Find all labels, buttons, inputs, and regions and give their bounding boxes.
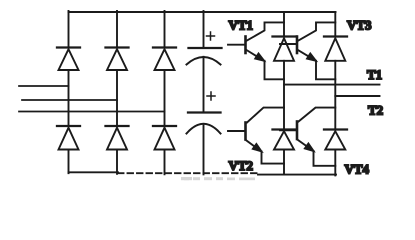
wire VT2 collector jog (247, 108, 284, 123)
top DC bus rail (69, 11, 336, 13)
output line T1 (284, 84, 380, 86)
diode D1 (top, column 1) (57, 48, 80, 71)
wire leg1 axis upper (283, 12, 285, 174)
polarity + of C1 (207, 32, 215, 40)
diode VD3 (antiparallel of VT3) (324, 37, 347, 61)
wire between C1 and C2 (203, 57, 205, 113)
diode VD4 (antiparallel of VT4) (324, 130, 347, 150)
diode D4 (bottom, column 1) (57, 126, 80, 150)
transistor VT1 (228, 37, 266, 64)
diode D5 (bottom, column 2) (106, 126, 129, 150)
bottom DC bus rail (69, 172, 337, 174)
wire VT3 collector jog (299, 22, 336, 40)
wire VT3 emitter jog (316, 61, 335, 80)
capacitor C1 (upper electrolytic) (187, 48, 222, 65)
transistor VT4 (280, 122, 315, 154)
AC input phase line 3 (19, 111, 165, 113)
diode D3 (top, column 3) (153, 48, 176, 71)
wire capacitor column top (203, 11, 205, 48)
wire VT4 collector jog (299, 108, 336, 122)
svg-text:VT1: VT1 (229, 17, 254, 32)
wire VT1 emitter jog (265, 61, 285, 80)
wire leg2 axis (334, 12, 336, 175)
capacitor C2 (lower electrolytic) (187, 113, 221, 134)
output line T2 (335, 95, 379, 97)
diode VD2 (antiparallel of VT2) (273, 130, 296, 150)
svg-text:T1: T1 (367, 67, 382, 82)
diode D6 (bottom, column 3) (153, 126, 176, 150)
wire VT4 emitter jog (314, 151, 336, 166)
diode VD1 (antiparallel of VT1) (273, 37, 296, 61)
watermark (181, 177, 255, 180)
AC input phase line 1 (19, 85, 69, 87)
transistor VT2 (228, 123, 263, 154)
svg-text:VT2: VT2 (229, 158, 254, 173)
wire column 1 vertical (68, 11, 70, 173)
wire VT1 collector jog (247, 22, 284, 40)
diode D2 (top, column 2) (106, 48, 129, 71)
polarity + of C2 (207, 92, 215, 100)
AC input phase line 2 (22, 99, 117, 101)
wire column 3 vertical (164, 11, 166, 174)
wire column 2 vertical (116, 11, 118, 174)
svg-text:VT4: VT4 (345, 161, 370, 176)
wire VT2 emitter jog (262, 152, 285, 164)
wire capacitor column bottom (203, 126, 205, 175)
svg-text:VT3: VT3 (347, 18, 372, 33)
transistor VT3 (280, 37, 317, 64)
svg-text:T2: T2 (368, 103, 383, 118)
